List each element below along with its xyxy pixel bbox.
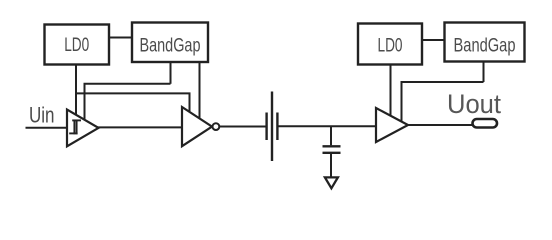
capacitor isolation barrier right plate — [276, 113, 278, 141]
wire Uin input — [26, 127, 68, 129]
wire LD0-right supply leg to U3 — [390, 65, 392, 120]
svg-text:Uout: Uout — [447, 89, 501, 119]
wire isolation capacitor to U3 input — [279, 125, 377, 127]
svg-text:LD0: LD0 — [64, 35, 89, 56]
buffer U2 (inverting) — [182, 107, 212, 146]
wire connector between LD0 and BandGap (right) — [422, 39, 445, 41]
capacitor C filter top plate — [323, 145, 341, 147]
wire LD0-left supply leg to U1 — [75, 65, 77, 121]
box BandGap (right) — [445, 23, 525, 62]
buffer U1 (schmitt trigger) — [67, 110, 99, 147]
wire U1 output to U2 input — [97, 126, 182, 128]
wire bus from BandGap-left to U1 top — [85, 84, 171, 124]
wire U2 output to isolation capacitor — [219, 126, 265, 128]
box LD0 (right) — [358, 24, 422, 65]
svg-text:BandGap: BandGap — [140, 35, 201, 56]
inverter bubble of U2 — [213, 123, 220, 130]
svg-text:Uin: Uin — [29, 103, 55, 128]
wire U3 output to terminal — [408, 124, 473, 126]
svg-text:LD0: LD0 — [378, 36, 403, 57]
wire capacitor to ground — [330, 154, 332, 177]
box BandGap (left) — [132, 23, 208, 63]
capacitor C filter bottom plate — [323, 152, 341, 154]
capacitor isolation barrier center plate — [271, 92, 273, 162]
wire connector between LD0 and BandGap (left) — [109, 37, 132, 39]
wire BandGap-left direct leg to U2 top — [199, 62, 201, 121]
wire junction leg to filter capacitor — [330, 126, 332, 145]
terminal Uout (pill) — [473, 119, 498, 128]
ground (arrow symbol) — [325, 177, 338, 188]
wire bus from LD0-left to U2 top — [76, 93, 190, 114]
wire BandGap-right leg down — [483, 62, 485, 83]
wire BandGap-left supply leg down — [170, 62, 172, 84]
hysteresis symbol in U1 — [69, 120, 81, 135]
box LD0 (left) — [45, 25, 110, 65]
buffer U3 — [376, 108, 408, 142]
wire bus from BandGap-right to U3 top — [402, 82, 484, 124]
capacitor isolation barrier left plate — [265, 113, 267, 141]
svg-text:BandGap: BandGap — [454, 35, 516, 56]
